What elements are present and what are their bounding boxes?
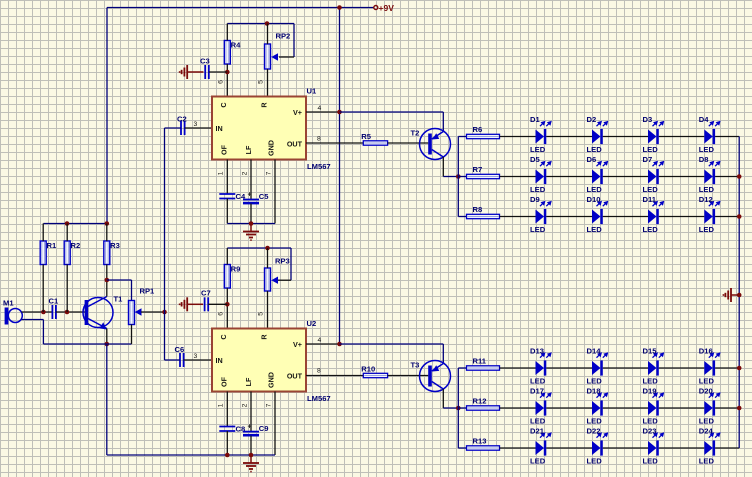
svg-text:2: 2 [242,171,249,175]
wire C6 to pin 3 IN [184,359,212,361]
svg-text:D21: D21 [530,427,545,436]
resistor R6 [467,134,500,138]
svg-text:8: 8 [317,136,321,143]
wire ground to C3 [187,71,203,73]
RP3 wiper arrow [271,277,278,284]
U1 pin 2 wire [250,160,252,200]
svg-text:R: R [260,334,269,340]
svg-text:C1: C1 [49,297,59,306]
wire row 6 [500,447,536,449]
svg-text:LED: LED [530,377,546,386]
svg-text:8: 8 [317,368,321,375]
svg-text:LED: LED [587,377,603,386]
LED D15 [643,347,665,386]
wire input vertical line [164,128,166,360]
LED D5 [530,155,552,194]
wire [659,136,705,138]
svg-text:R5: R5 [361,132,371,141]
wire RP3 bottom pin 5 [267,291,269,329]
node T1 emitter [105,342,110,347]
ground [730,288,732,302]
U2 pin 7 wire [274,392,276,456]
svg-text:LED: LED [530,225,546,234]
wire C7 to junction [208,303,227,305]
svg-text:R3: R3 [110,241,120,250]
wire [603,136,648,138]
svg-text:RP2: RP2 [276,32,291,41]
wire to R7 [458,176,466,178]
wire RP2 top [267,24,269,45]
transistor T2 [420,129,451,160]
svg-text:4: 4 [318,337,322,344]
svg-text:LED: LED [530,145,546,154]
LED D4 [699,115,721,154]
svg-text:LED: LED [587,225,603,234]
LED D8 [699,155,721,194]
svg-text:V+: V+ [293,108,302,117]
node wiper to input line [162,310,167,315]
resistor R2 [64,241,70,265]
wire RP3 top [267,248,269,268]
wire RP2 bottom pin 5 [267,69,269,97]
potentiometer RP3 [265,268,271,291]
svg-text:D13: D13 [530,347,544,356]
LED D13 [530,347,552,386]
svg-text:C: C [219,102,228,107]
wire [659,216,705,218]
svg-text:2: 2 [242,403,249,407]
wire bias top R1 R2 R3 [43,223,107,225]
svg-text:D4: D4 [699,115,709,124]
svg-text:3: 3 [194,121,198,128]
U2 pin 1 wire [226,392,228,427]
svg-text:D22: D22 [587,427,601,436]
ground [186,297,188,311]
wire row 2 [500,176,536,178]
wire [659,176,705,178]
svg-text:OF: OF [219,144,228,155]
wire to R11 [458,367,466,369]
svg-text:LED: LED [587,457,603,466]
wire bias top U2 [227,247,291,249]
svg-text:LM567: LM567 [307,162,331,171]
svg-text:1: 1 [218,403,225,407]
wire R2 bottom [66,265,68,313]
node R3 top [105,221,110,226]
node rail row2 [737,174,742,179]
wire R10 to T3 base [388,375,429,377]
wire [603,407,648,409]
svg-text:R9: R9 [231,265,241,274]
svg-text:M1: M1 [3,299,14,308]
node V+ rail top [337,5,342,10]
svg-text:IN: IN [216,356,223,365]
svg-text:GND: GND [267,372,276,388]
wire ground to C7 [187,303,203,305]
node C7 junction [225,302,230,307]
wire row 1 [500,136,536,138]
RP1 wiper arrow [135,308,142,315]
svg-text:D10: D10 [587,195,601,204]
svg-text:4: 4 [318,105,322,112]
wire T3 collector [442,389,444,408]
svg-text:GND: GND [267,140,276,156]
node U1 V+ [337,110,342,115]
wire [546,447,592,449]
resistor R4 [224,41,230,65]
wire [715,136,739,138]
wire to R13 [458,447,466,449]
wire [546,367,592,369]
wire R3 bottom [106,265,108,281]
power port +9V [374,6,378,10]
wire emitter bottom [43,343,131,345]
svg-text:R6: R6 [473,125,483,134]
wire V+ branch to T2 [340,111,444,113]
svg-text:U1: U1 [307,87,317,96]
wire C2 left [165,127,182,129]
svg-text:D20: D20 [699,387,713,396]
svg-text:R1: R1 [47,241,57,250]
wire R1 bottom [42,265,44,313]
svg-text:C: C [219,334,228,339]
capacitor C1 [51,305,53,319]
wire C9 bottom [250,436,252,455]
wire [715,367,739,369]
LED D22 [587,427,609,466]
svg-text:C2: C2 [177,115,187,124]
LED D21 [530,427,552,466]
wire RP2 wiper feed [293,24,295,58]
node R1 bottom [41,310,46,315]
wire [659,367,705,369]
wire V+ branch to T3 [340,343,444,345]
node rail ground [737,293,742,298]
transistor T3 [420,361,451,392]
resistor R11 [467,366,500,370]
svg-text:LED: LED [699,417,715,426]
svg-text:LED: LED [699,185,715,194]
node U2 V+ [337,342,342,347]
wire [715,216,739,218]
resistor R5 [363,141,387,145]
LED D3 [643,115,665,154]
node RP2 top [265,21,270,26]
resistor R7 [467,174,500,178]
capacitor C7 [204,297,206,311]
wire U2 ground bus [107,454,275,456]
microphone M1 [5,308,9,325]
wire C1 to base [56,311,85,313]
svg-text:OF: OF [219,376,228,387]
wire row 3 [500,216,536,218]
wire [546,407,592,409]
capacitor C5 [243,199,259,201]
wire to R12 [458,407,466,409]
IC U1 LM567 [212,97,306,160]
node R2 top [65,221,70,226]
LED D11 [643,195,665,234]
wire to R8 [458,216,466,218]
svg-text:D16: D16 [699,347,713,356]
wire [659,447,705,449]
resistor R8 [467,214,500,218]
node T3 collector [456,406,461,411]
wire R9 top [226,248,228,265]
wire [546,136,592,138]
svg-text:LED: LED [587,145,603,154]
svg-text:V+: V+ [293,340,302,349]
LED D9 [530,195,552,234]
svg-text:LED: LED [643,185,659,194]
wire collector branch vertical [457,137,459,217]
svg-text:LED: LED [530,457,546,466]
wire C8 bottom [226,431,228,455]
svg-text:R11: R11 [473,357,487,366]
svg-text:LED: LED [699,225,715,234]
svg-text:C9: C9 [259,424,269,433]
node R2 bottom [65,310,70,315]
svg-text:R7: R7 [473,165,483,174]
LED D18 [587,387,609,426]
svg-text:D18: D18 [587,387,601,396]
wire C6 left [165,359,181,361]
svg-text:LF: LF [244,377,253,386]
potentiometer RP2 [265,44,271,69]
wire right return rail [738,137,740,449]
wire emitter to ground rail [106,344,108,455]
wire M1 return drop [42,320,44,345]
svg-text:R2: R2 [71,241,81,250]
svg-text:D12: D12 [699,195,713,204]
wire [715,447,739,449]
svg-text:LED: LED [643,145,659,154]
svg-text:+9V: +9V [379,3,395,13]
wire T1 emitter [106,329,108,345]
wire V+ vertical rail [339,8,341,345]
ground [243,462,259,464]
node C3 junction [225,70,230,75]
wire [659,407,705,409]
LED D1 [530,115,552,154]
wire M1 return [22,319,44,321]
svg-text:D24: D24 [699,427,714,436]
svg-text:LED: LED [587,417,603,426]
RP2 wiper arrow [271,53,278,60]
resistor R10 [363,373,387,377]
svg-text:OUT: OUT [287,372,303,381]
svg-text:7: 7 [266,171,273,175]
svg-text:R10: R10 [361,365,375,374]
svg-text:IN: IN [216,124,223,133]
svg-text:LED: LED [643,377,659,386]
resistor R13 [467,446,500,450]
svg-text:R: R [260,102,269,108]
wire row 5 [500,407,536,409]
svg-text:D2: D2 [587,115,597,124]
svg-text:6: 6 [218,80,225,84]
LED D10 [587,195,609,234]
svg-text:LED: LED [530,185,546,194]
svg-text:D7: D7 [643,155,653,164]
wire R9 bottom pin 6 [226,288,228,329]
wire +9V top rail [107,7,374,9]
svg-text:LED: LED [530,417,546,426]
ground [243,231,259,233]
svg-text:D6: D6 [587,155,597,164]
svg-text:LED: LED [643,225,659,234]
LED D20 [699,387,721,426]
node rail row4 [737,366,742,371]
wire [715,176,739,178]
svg-text:C6: C6 [175,345,185,354]
wire collector branch vertical [457,368,459,448]
node C8 ground [225,453,230,458]
wire T1 collector [106,280,108,297]
U1 pin 8 wire OUT [306,142,363,144]
svg-text:LF: LF [244,145,253,154]
wire M1 out [22,311,53,313]
wire [546,216,592,218]
wire R3 top [106,224,108,242]
svg-text:R12: R12 [473,397,487,406]
svg-text:D5: D5 [530,155,540,164]
svg-text:OUT: OUT [287,140,303,149]
node rail row3 [737,214,742,219]
node U2 ground [249,453,254,458]
wire R4 bottom pin 6 [226,64,228,97]
wire bias top U1 [227,23,294,25]
LED D12 [699,195,721,234]
svg-text:R4: R4 [231,41,241,50]
wire R2 top [66,224,68,242]
svg-text:LED: LED [699,457,715,466]
svg-text:U2: U2 [307,319,317,328]
capacitor C8 [219,426,235,428]
resistor R1 [40,241,46,265]
svg-text:LED: LED [643,457,659,466]
wire C4 bottom [226,199,228,224]
ground [186,65,188,79]
svg-text:5: 5 [258,80,265,84]
svg-text:D9: D9 [530,195,540,204]
svg-text:LED: LED [643,417,659,426]
svg-text:T3: T3 [411,361,420,370]
capacitor C6 [179,353,181,367]
LED D14 [587,347,609,386]
svg-text:LED: LED [587,185,603,194]
wire R1 top [42,224,44,242]
LED D17 [530,387,552,426]
capacitor C3 [204,65,206,79]
svg-text:D8: D8 [699,155,709,164]
node T2 collector [456,174,461,179]
svg-text:RP3: RP3 [275,257,290,266]
svg-text:C3: C3 [200,57,210,66]
svg-text:LED: LED [699,145,715,154]
wire R5 to T2 base [388,142,429,144]
svg-text:C7: C7 [201,289,211,298]
svg-text:D17: D17 [530,387,544,396]
U2 pin 4 wire to V+ rail [306,343,340,345]
svg-text:+: + [248,422,252,431]
U1 pin 7 wire [274,160,276,224]
svg-text:D11: D11 [643,195,657,204]
wire [715,407,739,409]
resistor R3 [104,241,110,265]
node RP3 top [265,246,270,251]
wire C3 to junction [209,71,228,73]
wire [603,447,648,449]
svg-text:LM567: LM567 [307,394,331,403]
potentiometer RP1 [129,301,135,325]
U2 pin 2 wire [250,392,252,432]
LED D23 [643,427,665,466]
wire ground stub [250,455,252,463]
svg-text:D14: D14 [587,347,602,356]
node T1 collector [105,278,110,283]
LED D16 [699,347,721,386]
LED D7 [643,155,665,194]
svg-text:7: 7 [266,403,273,407]
resistor R9 [224,265,230,289]
svg-text:6: 6 [218,312,225,316]
svg-text:3: 3 [194,353,198,360]
svg-text:T2: T2 [411,129,420,138]
svg-text:R8: R8 [473,205,483,214]
capacitor C2 [180,121,182,135]
svg-text:D19: D19 [643,387,657,396]
svg-text:+: + [248,190,252,199]
U2 pin 8 wire OUT [306,375,363,377]
wire [603,367,648,369]
LED D6 [587,155,609,194]
svg-text:D3: D3 [643,115,653,124]
svg-text:D1: D1 [530,115,540,124]
svg-text:D23: D23 [643,427,657,436]
svg-text:5: 5 [258,312,265,316]
wire ground stub [731,294,739,296]
svg-text:LED: LED [699,377,715,386]
svg-text:RP1: RP1 [140,287,156,296]
wire U1 ground bus [227,223,275,225]
wire R4 top [226,24,228,41]
svg-text:T1: T1 [114,295,124,304]
wire [603,176,648,178]
IC U2 LM567 [212,329,306,392]
svg-text:R13: R13 [473,437,487,446]
LED D2 [587,115,609,154]
wire ground stub [250,224,252,232]
node U1 ground [249,221,254,226]
wire to R6 [458,136,466,138]
wire C2 to pin 3 IN [185,127,212,129]
wire left drop from rail [106,8,108,224]
resistor R12 [467,406,500,410]
LED D24 [699,427,721,466]
wire T2 collector [442,157,444,177]
U1 pin 1 wire [226,160,228,195]
LED D19 [643,387,665,426]
svg-text:C5: C5 [259,192,269,201]
wire RP1 wiper [141,311,165,313]
wire C5 bottom [250,204,252,224]
svg-text:1: 1 [218,171,225,175]
wire collector to RP1 [107,279,132,281]
wire [546,176,592,178]
svg-text:D15: D15 [643,347,658,356]
capacitor C4 [219,193,235,195]
